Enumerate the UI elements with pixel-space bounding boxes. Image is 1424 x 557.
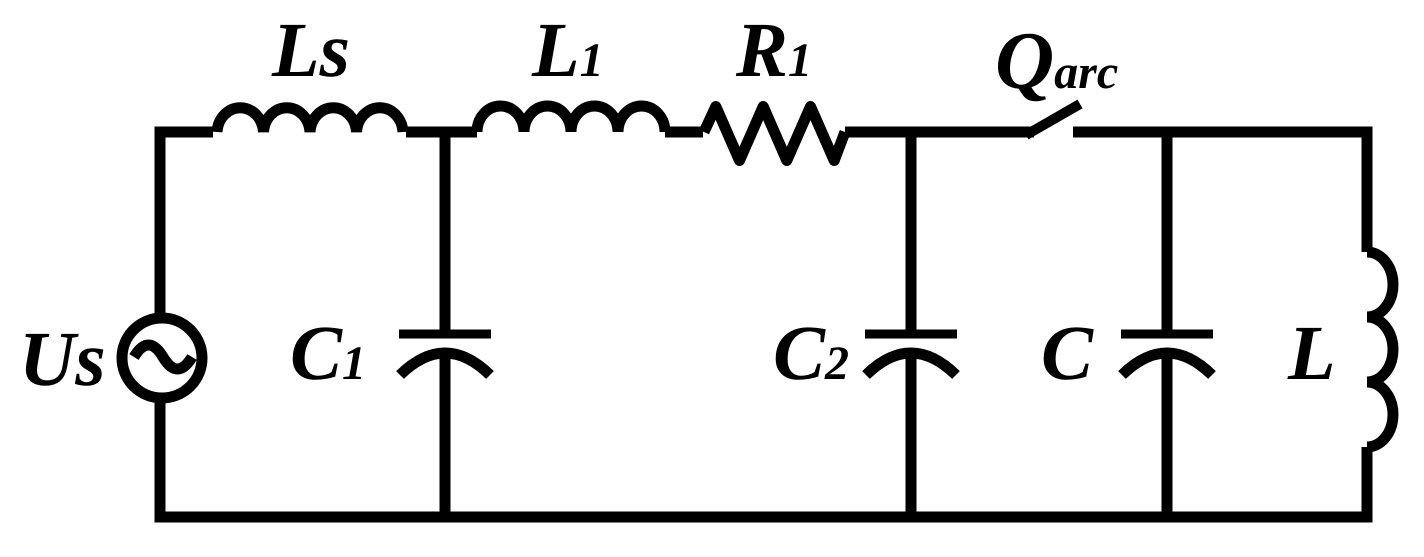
wire switch to top-right corner (node C tap) xyxy=(1073,132,1367,252)
capacitor C1 wire upper xyxy=(440,132,451,334)
capacitor C2 wire upper xyxy=(906,132,917,334)
wire L1 to R1 xyxy=(665,127,703,138)
capacitor C wire lower xyxy=(1162,351,1173,517)
wire top-left corner to Ls xyxy=(160,132,213,317)
capacitor C1 curved plate xyxy=(400,353,490,375)
label C2 xyxy=(776,327,848,379)
inductor L1 xyxy=(477,106,665,132)
capacitor C1 wire lower xyxy=(440,351,451,517)
inductor LS xyxy=(217,108,403,132)
label US xyxy=(25,334,103,386)
wire Ls to L1 (node C1 tap) xyxy=(406,127,477,138)
capacitor C2 curved plate xyxy=(866,353,956,375)
inductor L xyxy=(1367,252,1393,447)
wire R1 to switch (node C2 tap) xyxy=(845,127,1034,138)
capacitor C2 wire lower xyxy=(906,351,917,517)
source US circle xyxy=(122,318,202,398)
label L xyxy=(1287,328,1332,379)
capacitor C wire upper xyxy=(1162,132,1173,334)
capacitor C2 top plate xyxy=(865,330,957,339)
label C1 xyxy=(293,327,362,379)
label LS xyxy=(271,25,347,77)
wire right branch lower + bottom rail + left lower xyxy=(160,399,1367,517)
capacitor C1 top plate xyxy=(399,330,491,339)
label Qarc xyxy=(998,34,1118,102)
capacitor C curved plate xyxy=(1122,353,1212,375)
switch Qarc blade xyxy=(1026,104,1080,135)
label L1 xyxy=(531,25,598,76)
source US sine xyxy=(134,345,192,369)
capacitor C top plate xyxy=(1121,330,1213,339)
resistor R1 xyxy=(704,107,845,161)
label C xyxy=(1044,327,1094,379)
label R1 xyxy=(736,25,807,76)
